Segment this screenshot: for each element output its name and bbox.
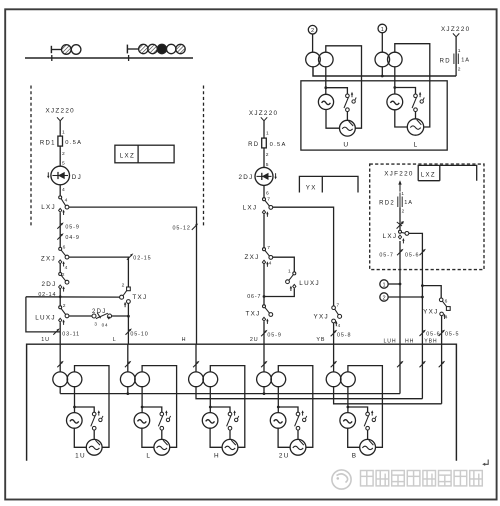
contact LUXJ (59, 306, 69, 325)
wire (297, 430, 299, 439)
cable mark (397, 361, 403, 367)
cable mark 05-7 (397, 249, 403, 255)
svg-text:7: 7 (267, 197, 270, 203)
bypass wire (264, 289, 294, 297)
svg-text:XJZ220: XJZ220 (441, 26, 471, 33)
wire (59, 213, 61, 248)
wire (263, 185, 265, 197)
watermark glyph (454, 471, 467, 486)
svg-text:ZXJ: ZXJ (41, 255, 56, 262)
wire (441, 316, 443, 404)
svg-text:4: 4 (65, 265, 68, 271)
ac source (318, 94, 333, 109)
wire (59, 387, 61, 394)
enclosure wire loop (278, 366, 313, 448)
watermark glyph (392, 471, 405, 486)
wire (59, 323, 61, 345)
svg-text:H: H (182, 337, 186, 343)
junction (277, 406, 280, 409)
cable mark (439, 361, 445, 367)
cable tag 2 (380, 293, 424, 302)
wire (263, 215, 265, 248)
svg-text:YXJ: YXJ (423, 309, 438, 316)
transformer H (189, 372, 218, 387)
wire YXJ to bus (333, 323, 335, 344)
ac source 1U (67, 413, 83, 429)
cable tag 2 (308, 25, 317, 34)
watermark logo (332, 470, 351, 489)
svg-text:05-6: 05-6 (426, 331, 440, 337)
contact 2DJ horizontal (92, 313, 112, 320)
signal base line (25, 57, 193, 59)
watermark glyph (361, 471, 374, 486)
svg-text:LXJ: LXJ (41, 204, 56, 211)
corner mark (482, 460, 488, 466)
enclosure wire loop (210, 366, 245, 448)
svg-text:LXJ: LXJ (243, 204, 258, 211)
svg-text:2: 2 (266, 152, 269, 158)
ac source L (134, 413, 150, 429)
svg-text:2U: 2U (279, 452, 290, 459)
svg-text:1U: 1U (41, 337, 50, 343)
svg-text:LUH: LUH (383, 339, 396, 345)
junction (141, 406, 144, 409)
wire LXJ front to YXJ drop (273, 207, 334, 306)
cable mark 05-10 (126, 328, 132, 334)
wire ZXJ front to LUXJ bypass (273, 257, 295, 272)
svg-text:1A: 1A (461, 58, 470, 64)
svg-text:XJF220: XJF220 (384, 170, 414, 177)
wire (161, 430, 163, 439)
wire (141, 407, 143, 413)
svg-text:RD: RD (440, 58, 451, 64)
lamp H (222, 439, 238, 455)
contact LXJ (262, 198, 272, 217)
signal 2 lens white (167, 44, 176, 53)
junction (347, 406, 350, 409)
cable mark 03-11 (53, 328, 59, 334)
contact TXJ (262, 305, 272, 324)
svg-text:6: 6 (266, 190, 269, 196)
wire to switch (210, 407, 230, 412)
svg-text:2U: 2U (250, 337, 259, 343)
svg-text:0.5A: 0.5A (65, 140, 82, 146)
svg-text:5: 5 (62, 161, 65, 167)
svg-text:LUXJ: LUXJ (299, 280, 320, 287)
return line C (334, 387, 442, 404)
svg-text:2: 2 (311, 28, 314, 34)
dashed enclosure (370, 164, 484, 270)
cable mark 05-6 (420, 330, 426, 336)
signal 1 mast (51, 46, 61, 61)
cable mark 05-9 (57, 222, 63, 228)
lamp 1U (86, 439, 102, 455)
node 06-7 (263, 295, 266, 298)
watermark glyph (439, 471, 452, 486)
wire (93, 430, 95, 439)
feed over-wire L (395, 44, 430, 127)
svg-text:0.5A: 0.5A (270, 142, 287, 148)
svg-text:RD: RD (248, 142, 259, 148)
svg-text:02-15: 02-15 (133, 256, 151, 262)
wire (394, 67, 396, 94)
contact LXJ (398, 230, 408, 243)
svg-text:04: 04 (102, 322, 109, 327)
cable tag 1 (380, 280, 402, 289)
svg-text:1: 1 (401, 191, 404, 196)
secondary wire (209, 387, 211, 407)
svg-text:YX: YX (306, 184, 317, 191)
wire (59, 289, 61, 306)
node (381, 75, 384, 78)
svg-text:1: 1 (381, 27, 384, 33)
svg-text:YXJ: YXJ (314, 313, 329, 320)
enclosure wire loop (142, 366, 177, 448)
secondary wire (277, 387, 279, 407)
fuse RD2 (398, 193, 402, 212)
svg-text:L: L (113, 337, 116, 343)
feed over-wire U (326, 46, 362, 128)
svg-text:L: L (413, 142, 417, 149)
contact 2DJ (59, 273, 69, 292)
switch U (344, 92, 356, 112)
svg-text:2: 2 (62, 151, 65, 157)
svg-text:4: 4 (65, 198, 68, 204)
wire (126, 387, 129, 395)
cable mark 05-8 (331, 330, 337, 336)
node 02-14 (59, 295, 62, 298)
wire (209, 407, 211, 413)
switch (295, 410, 307, 430)
switch (158, 410, 170, 430)
svg-text:7: 7 (337, 303, 340, 308)
ac source B (340, 413, 356, 429)
wire to switch (395, 88, 416, 95)
arrow up (398, 180, 401, 191)
bypass wire (26, 297, 60, 332)
terminal bus (27, 344, 457, 461)
contact LUXJ mirrored (286, 272, 296, 291)
svg-text:DJ: DJ (72, 174, 82, 181)
wire to switch (75, 407, 95, 412)
wire (395, 110, 408, 127)
wire (263, 387, 266, 395)
feed wire L (127, 344, 129, 372)
svg-text:RD2: RD2 (379, 201, 395, 207)
transformer 2U (257, 372, 286, 387)
secondary wire (347, 387, 349, 407)
fuse RD (262, 137, 267, 150)
terminal box LXZ (115, 145, 174, 163)
svg-text:TXJ: TXJ (245, 310, 260, 317)
enclosure box U/L (301, 81, 447, 150)
svg-text:2: 2 (63, 303, 66, 309)
transformer B (326, 372, 355, 387)
wire LXJ front riser (409, 233, 423, 398)
cable mark (57, 361, 63, 367)
wire (325, 67, 327, 94)
svg-text:05-9: 05-9 (65, 224, 79, 230)
wire (59, 264, 61, 273)
cable mark (193, 361, 199, 367)
cable mark (331, 361, 337, 367)
switch L (412, 92, 424, 112)
contact mark (397, 221, 404, 229)
junction (324, 86, 327, 89)
wire to switch (278, 407, 298, 412)
wire (278, 428, 290, 447)
svg-text:LXZ: LXZ (421, 173, 436, 179)
cable mark (125, 361, 131, 367)
wire (312, 34, 314, 52)
svg-text:YBH: YBH (424, 339, 437, 345)
wire to switch (326, 88, 348, 94)
svg-text:2: 2 (122, 283, 125, 289)
wire (348, 428, 360, 447)
svg-text:XJZ220: XJZ220 (249, 110, 279, 117)
svg-text:RD1: RD1 (40, 140, 56, 146)
svg-text:05-6: 05-6 (405, 252, 419, 258)
wire (399, 208, 401, 231)
cable mark 05-6 (420, 249, 426, 255)
svg-text:05-10: 05-10 (130, 331, 148, 337)
wire (381, 67, 383, 76)
wire (112, 315, 129, 317)
switch (91, 410, 103, 430)
svg-text:XJZ220: XJZ220 (45, 107, 75, 114)
wire (142, 428, 154, 447)
switch (227, 410, 239, 430)
wire (263, 322, 265, 345)
ac source H (202, 413, 218, 429)
wire to switch (348, 407, 368, 412)
svg-text:4: 4 (269, 260, 272, 266)
signal 2 lens hatched (176, 44, 185, 53)
svg-text:1A: 1A (404, 200, 413, 206)
node (127, 315, 130, 318)
junction (209, 406, 212, 409)
feed wire 2U (263, 344, 265, 372)
enclosure wire loop (348, 366, 383, 448)
transformer 2 (306, 52, 333, 67)
svg-text:2DJ: 2DJ (238, 174, 253, 181)
svg-text:6: 6 (445, 298, 448, 304)
svg-text:L: L (146, 452, 150, 459)
signal 1 lens hatched (62, 45, 72, 55)
cable mark 02-15 (127, 253, 133, 259)
junction (73, 406, 76, 409)
svg-text:4: 4 (338, 323, 341, 328)
svg-text:H: H (214, 452, 219, 459)
enclosure wire loop (75, 366, 110, 448)
cable mark 05-9 (261, 330, 267, 336)
cable mark 05-5 (439, 330, 445, 336)
svg-text:HH: HH (405, 339, 414, 345)
svg-text:3: 3 (94, 321, 97, 326)
svg-text:2: 2 (458, 66, 461, 72)
signal 2 lens filled (157, 44, 166, 53)
contact YXJ middle (332, 306, 342, 326)
svg-text:05-9: 05-9 (267, 333, 281, 339)
wire (381, 33, 383, 52)
svg-text:B: B (352, 452, 356, 459)
feed wire H (195, 344, 197, 372)
wire LXJ front to H drop (69, 207, 197, 344)
wire (59, 185, 61, 196)
return wire (313, 67, 456, 76)
wire ZXJ front to TXJ drop (69, 257, 128, 287)
signal 2 lens hatched (148, 44, 157, 53)
wire (399, 241, 401, 394)
signal 2 lens hatched (139, 44, 148, 53)
transformer 1 (375, 52, 402, 67)
svg-text:1: 1 (382, 282, 385, 288)
wire (326, 110, 340, 129)
svg-text:4: 4 (62, 187, 65, 193)
cable mark 04-9 (57, 233, 63, 239)
cable mark (261, 361, 267, 367)
wire (346, 112, 348, 121)
switch (364, 410, 376, 430)
svg-text:LXZ: LXZ (120, 152, 135, 159)
source connector Y (453, 33, 459, 36)
contact ZXJ (59, 247, 69, 266)
wire (210, 428, 222, 447)
watermark glyph (376, 471, 389, 486)
svg-text:1U: 1U (75, 452, 86, 459)
svg-text:05-5: 05-5 (445, 331, 459, 337)
transformer L (120, 372, 149, 387)
lamp L (407, 119, 423, 135)
svg-text:LXJ: LXJ (383, 233, 398, 240)
signal 1 lens white (71, 45, 81, 55)
svg-text:2: 2 (402, 208, 405, 213)
contact LXJ (59, 196, 69, 215)
lamp U (340, 120, 356, 136)
wire (59, 121, 61, 135)
wire (347, 407, 349, 413)
transformer 1U (53, 372, 82, 387)
svg-text:1: 1 (266, 131, 269, 137)
wire YXJ branch (422, 286, 441, 298)
secondary wire (74, 387, 76, 407)
svg-text:03-11: 03-11 (62, 331, 80, 337)
contact TXJ left (120, 287, 131, 307)
wire (263, 149, 265, 167)
svg-text:05-12: 05-12 (173, 226, 191, 232)
svg-text:U: U (343, 141, 348, 148)
source connector Y (261, 117, 267, 121)
return line B (196, 387, 422, 399)
svg-text:06-7: 06-7 (247, 294, 261, 300)
lamp L (154, 439, 170, 455)
junction (393, 86, 396, 89)
wire to switch (142, 407, 162, 412)
svg-text:YB: YB (316, 337, 325, 343)
svg-text:ZXJ: ZXJ (244, 254, 259, 261)
contact YXJ right (439, 298, 450, 319)
svg-text:1: 1 (458, 48, 461, 54)
return line A (60, 393, 400, 395)
fuse RD1 (58, 135, 63, 148)
ac source (387, 94, 403, 110)
feed wire 1U (59, 344, 61, 372)
svg-text:05-8: 05-8 (337, 333, 351, 339)
svg-text:1: 1 (288, 269, 291, 275)
svg-text:04-9: 04-9 (65, 235, 79, 241)
cable mark (420, 361, 426, 367)
watermark glyph (423, 471, 436, 486)
relay 2DJ (255, 167, 277, 185)
lamp B (360, 439, 376, 455)
relay DJ (47, 166, 69, 185)
svg-text:4: 4 (445, 315, 448, 321)
watermark glyph (470, 471, 483, 486)
feed wire B (333, 344, 335, 372)
wire LUXJ front to 2DJ contact (69, 315, 92, 317)
wire (367, 430, 369, 439)
wire (263, 121, 265, 137)
cable tag 1 (378, 24, 387, 33)
wire (263, 265, 265, 305)
svg-text:TXJ: TXJ (132, 294, 147, 301)
source connector Y (57, 117, 63, 121)
ac source 2U (270, 413, 286, 429)
wire (74, 428, 86, 447)
wire (455, 37, 457, 76)
signal 2 mast (127, 45, 138, 61)
node (421, 284, 424, 287)
svg-text:7: 7 (267, 245, 270, 251)
svg-text:1: 1 (62, 129, 65, 135)
dashed divider left (30, 86, 32, 227)
svg-text:6: 6 (63, 244, 66, 250)
contact ZXJ (262, 248, 272, 267)
wire (415, 112, 417, 120)
svg-text:2DJ: 2DJ (92, 309, 107, 315)
cable mark 05-12 (192, 224, 198, 230)
fuse RD 1A (454, 50, 458, 69)
secondary wire (141, 387, 143, 407)
wire TXJ to bus (127, 303, 129, 344)
terminal box YX (299, 176, 358, 192)
terminal box LXZ (418, 165, 477, 180)
watermark glyph (407, 471, 420, 486)
svg-text:LUXJ: LUXJ (35, 314, 56, 321)
svg-text:05-7: 05-7 (379, 252, 393, 258)
svg-text:2DJ: 2DJ (41, 281, 56, 288)
wire 02-14 (26, 296, 120, 298)
svg-text:2: 2 (382, 295, 385, 301)
wire (59, 148, 61, 167)
wire (229, 430, 231, 439)
dashed divider right (203, 86, 205, 227)
lamp 2U (290, 439, 306, 455)
wire (277, 407, 279, 413)
wire (74, 407, 76, 413)
